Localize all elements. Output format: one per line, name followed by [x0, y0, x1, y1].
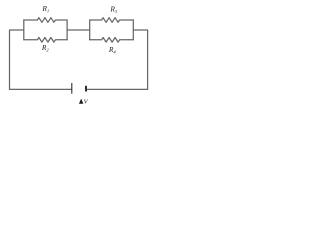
wire left block right edge: [66, 20, 68, 40]
battery ΔV short plate: [85, 86, 87, 92]
wire right block left edge: [89, 20, 91, 40]
wire left outer loop: [10, 30, 72, 89]
wire right block right edge: [132, 20, 134, 40]
label ΔV: [79, 99, 83, 104]
svg-text:V: V: [84, 99, 89, 106]
wire left block left edge: [23, 20, 25, 40]
svg-text:R3: R3: [109, 5, 118, 15]
battery ΔV long plate: [71, 83, 73, 94]
wire middle stub between blocks: [67, 29, 90, 31]
resistor R1: [24, 18, 67, 23]
svg-text:R4: R4: [108, 45, 117, 55]
wire right outer loop: [86, 30, 147, 89]
svg-text:R1: R1: [41, 4, 49, 14]
resistor R3: [90, 18, 134, 23]
resistor R2: [24, 38, 67, 43]
resistor R4: [90, 38, 134, 43]
svg-text:R2: R2: [41, 43, 50, 53]
